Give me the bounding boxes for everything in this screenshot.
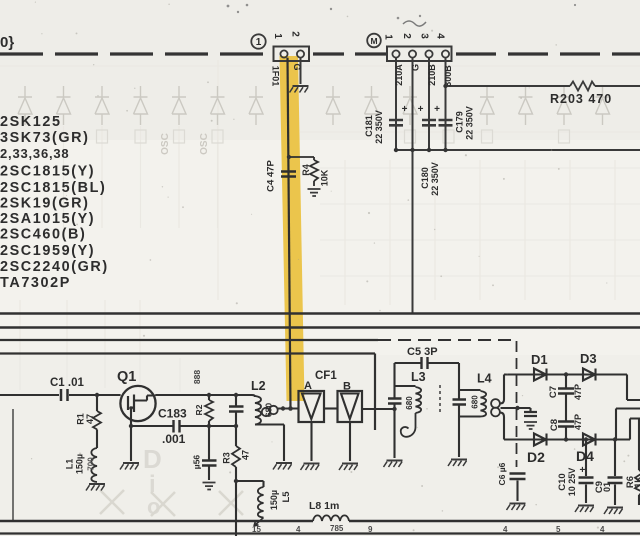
svg-text:M: M xyxy=(370,36,377,46)
svg-text:700: 700 xyxy=(87,457,96,471)
svg-text:4: 4 xyxy=(600,525,605,534)
svg-text:OSC: OSC xyxy=(160,133,171,155)
svg-text:C183: C183 xyxy=(158,407,187,421)
svg-text:2SC2240(GR): 2SC2240(GR) xyxy=(0,259,109,275)
svg-text:210A: 210A xyxy=(394,64,404,86)
svg-text:D3: D3 xyxy=(580,351,597,366)
svg-text:785: 785 xyxy=(330,524,344,533)
svg-text:L4: L4 xyxy=(477,372,492,386)
svg-text:150µ: 150µ xyxy=(269,490,279,510)
svg-text:4: 4 xyxy=(503,525,508,534)
svg-text:C7: C7 xyxy=(548,386,559,398)
svg-text:22 350V: 22 350V xyxy=(465,106,475,140)
svg-text:1: 1 xyxy=(383,34,394,40)
svg-text:5: 5 xyxy=(556,525,561,534)
svg-text:2SC460(B): 2SC460(B) xyxy=(0,227,86,243)
svg-text:+: + xyxy=(402,104,408,115)
svg-text:1K: 1K xyxy=(633,476,640,488)
svg-text:+: + xyxy=(418,104,424,115)
svg-text:47P: 47P xyxy=(573,384,583,400)
svg-text:C5 3P: C5 3P xyxy=(407,346,438,358)
svg-text:D4: D4 xyxy=(576,448,594,464)
svg-text:4: 4 xyxy=(296,525,301,534)
svg-text:CF1: CF1 xyxy=(315,370,337,382)
svg-text:2SC1959(Y): 2SC1959(Y) xyxy=(0,243,95,259)
svg-text:2,33,36,38: 2,33,36,38 xyxy=(0,146,69,161)
svg-text:R1: R1 xyxy=(76,413,86,425)
svg-text:C1 .01: C1 .01 xyxy=(50,377,84,389)
svg-text:0}: 0} xyxy=(0,34,14,51)
svg-text:+: + xyxy=(434,104,440,115)
svg-text:D: D xyxy=(143,444,162,474)
svg-text:L1: L1 xyxy=(65,459,75,470)
svg-text:210B: 210B xyxy=(427,64,437,86)
svg-text:L2: L2 xyxy=(251,379,266,393)
svg-text:150µ: 150µ xyxy=(75,454,85,474)
svg-text:C179: C179 xyxy=(455,111,465,133)
svg-text:10K: 10K xyxy=(320,169,330,186)
svg-text:µ56: µ56 xyxy=(192,455,202,470)
svg-text:L8 1m: L8 1m xyxy=(309,500,339,512)
svg-text:2SC1815(Y): 2SC1815(Y) xyxy=(0,164,95,180)
svg-text:300B: 300B xyxy=(443,65,453,87)
svg-text:47P: 47P xyxy=(573,414,583,430)
svg-text:D2: D2 xyxy=(527,449,545,465)
svg-text:15: 15 xyxy=(252,525,261,534)
svg-text:A: A xyxy=(304,380,312,392)
svg-text:R203 470: R203 470 xyxy=(550,92,612,106)
svg-text:D1: D1 xyxy=(531,352,548,367)
svg-text:B: B xyxy=(343,381,351,393)
svg-text:680: 680 xyxy=(264,403,274,417)
svg-text:G: G xyxy=(411,64,421,71)
svg-text:2SC1815(BL): 2SC1815(BL) xyxy=(0,180,106,196)
svg-text:G: G xyxy=(292,63,302,70)
svg-text:01: 01 xyxy=(602,482,612,492)
svg-text:OSC: OSC xyxy=(199,133,210,155)
svg-text:22 350V: 22 350V xyxy=(374,110,384,144)
svg-text:680: 680 xyxy=(471,395,480,409)
svg-text:9: 9 xyxy=(368,525,373,534)
svg-text:.001: .001 xyxy=(162,432,186,446)
svg-text:22 350V: 22 350V xyxy=(430,162,440,196)
svg-text:C180: C180 xyxy=(420,167,430,189)
svg-text:47: 47 xyxy=(241,450,251,460)
svg-text:1: 1 xyxy=(256,37,262,48)
svg-text:C6 µ6: C6 µ6 xyxy=(497,462,507,485)
svg-text:2: 2 xyxy=(290,31,301,37)
svg-text:888: 888 xyxy=(192,370,202,384)
svg-text:L5: L5 xyxy=(281,491,292,503)
svg-text:2: 2 xyxy=(401,33,412,39)
svg-text:R4: R4 xyxy=(301,164,311,176)
svg-text:2SK19(GR): 2SK19(GR) xyxy=(0,196,90,212)
svg-text:C8: C8 xyxy=(549,419,560,431)
svg-text:Q1: Q1 xyxy=(117,369,136,385)
svg-text:4: 4 xyxy=(435,33,446,39)
svg-text:TA7302P: TA7302P xyxy=(0,275,71,291)
svg-text:1: 1 xyxy=(272,33,283,39)
svg-text:R3: R3 xyxy=(222,452,232,464)
svg-text:C181: C181 xyxy=(364,115,374,137)
svg-text:+: + xyxy=(580,465,586,476)
svg-text:L3: L3 xyxy=(411,370,426,384)
svg-text:47: 47 xyxy=(85,414,95,424)
svg-text:2SK125: 2SK125 xyxy=(0,114,62,130)
svg-text:3SK73(GR): 3SK73(GR) xyxy=(0,130,90,146)
svg-text:10 25V: 10 25V xyxy=(567,468,577,497)
svg-text:R2: R2 xyxy=(194,404,204,415)
svg-text:2SA1015(Y): 2SA1015(Y) xyxy=(0,211,95,227)
svg-text:C4 47P: C4 47P xyxy=(266,159,277,191)
svg-text:1F01: 1F01 xyxy=(271,66,281,87)
svg-text:680: 680 xyxy=(405,396,414,410)
